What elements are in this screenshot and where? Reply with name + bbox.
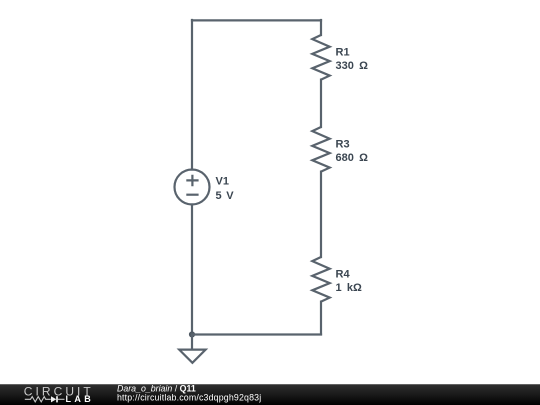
CircuitLab logo diode xyxy=(51,396,65,402)
label R3 value xyxy=(336,139,369,165)
CircuitLab logo resistor squiggle xyxy=(25,397,51,402)
wire top horizontal xyxy=(192,19,321,21)
wire left vertical (V1 to junction) xyxy=(191,205,193,335)
footer title text xyxy=(117,384,196,394)
svg-text:330 Ω: 330 Ω xyxy=(336,60,369,72)
wire right vertical (R4 to bottom) xyxy=(320,302,322,335)
voltage source V1 xyxy=(175,170,210,205)
label R4 value xyxy=(336,269,363,295)
svg-text:680 Ω: 680 Ω xyxy=(336,152,369,164)
label R1 value xyxy=(336,47,369,72)
resistor R4 xyxy=(312,257,329,302)
footer url text xyxy=(117,393,261,403)
wire right vertical (top to R1) xyxy=(320,20,322,35)
svg-text:LAB: LAB xyxy=(66,394,95,404)
wire left vertical (top to V1) xyxy=(191,20,193,170)
resistor R1 xyxy=(312,35,329,80)
svg-text:R3: R3 xyxy=(336,139,350,151)
wire right vertical (R1 to R3) xyxy=(320,80,322,127)
node junction dot xyxy=(189,331,195,337)
CircuitLab logo LAB xyxy=(66,394,95,404)
label V1 value xyxy=(216,175,235,201)
wire right vertical (R3 to R4) xyxy=(320,172,322,257)
ground xyxy=(179,334,205,362)
CircuitLab logo wordmark CIRCUIT xyxy=(24,384,94,398)
footer bar xyxy=(0,384,540,405)
svg-text:R4: R4 xyxy=(336,269,351,281)
svg-text:V1: V1 xyxy=(216,175,229,187)
svg-text:R1: R1 xyxy=(336,47,350,59)
resistor R3 xyxy=(312,127,329,172)
svg-text:1 kΩ: 1 kΩ xyxy=(336,282,363,294)
wire bottom horizontal xyxy=(192,333,321,335)
svg-text:http://circuitlab.com/c3dqpgh9: http://circuitlab.com/c3dqpgh92q83j xyxy=(117,393,261,403)
